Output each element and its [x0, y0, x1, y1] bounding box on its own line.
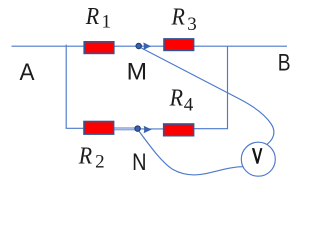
wire curved connector from node M to voltmeter	[138, 46, 274, 144]
wire top bus from A to B	[12, 45, 288, 47]
resistor R4	[164, 124, 194, 136]
svg-text:R: R	[169, 86, 184, 112]
svg-text:R: R	[171, 4, 186, 30]
resistor R2	[84, 122, 114, 135]
node M junction dot	[136, 43, 141, 48]
wire left vertical drop with bottom-left corner	[66, 45, 84, 129]
svg-text:A: A	[20, 59, 36, 86]
resistor R1	[84, 42, 114, 54]
svg-text:R: R	[78, 143, 93, 169]
arrowhead at node M	[143, 42, 151, 50]
svg-text:B: B	[278, 49, 291, 76]
wire double line from R2 to node N	[113, 128, 136, 130]
svg-text:4: 4	[184, 95, 194, 116]
label R3	[171, 4, 197, 35]
label R2	[78, 143, 105, 172]
label R1	[85, 4, 111, 33]
node N junction dot	[135, 126, 140, 131]
svg-text:2: 2	[95, 151, 105, 172]
svg-text:M: M	[127, 58, 147, 85]
wire from R4 to right vertical riser up to top bus	[193, 46, 228, 129]
wire from node N to R4	[136, 128, 165, 130]
svg-text:3: 3	[187, 14, 197, 35]
voltmeter V	[241, 142, 275, 176]
arrowhead at node N	[144, 126, 152, 134]
label R4	[169, 86, 194, 116]
wire curved connector from node N to voltmeter	[138, 129, 245, 175]
resistor R3	[164, 39, 194, 51]
svg-text:R: R	[85, 4, 100, 30]
svg-text:N: N	[132, 149, 146, 176]
svg-text:1: 1	[102, 12, 112, 33]
